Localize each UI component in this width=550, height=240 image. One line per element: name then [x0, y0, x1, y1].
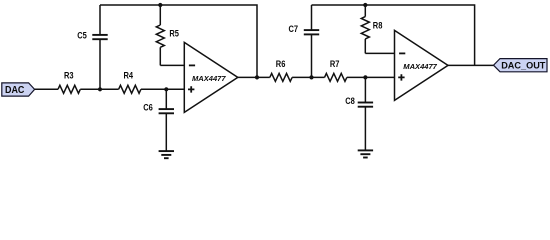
wire R4 to node B to op-amp + input	[141, 88, 184, 90]
capacitor C8	[345, 77, 373, 150]
svg-text:R7: R7	[330, 59, 340, 69]
wire R8 to op-amp2 inverting input	[365, 52, 394, 54]
resistor R6	[270, 59, 292, 82]
svg-text:DAC_OUT: DAC_OUT	[501, 61, 545, 72]
node D junction	[363, 75, 367, 79]
svg-text:MAX4477: MAX4477	[192, 74, 226, 83]
svg-text:R4: R4	[124, 71, 134, 81]
resistor R5	[156, 5, 179, 65]
svg-text:R6: R6	[276, 59, 286, 69]
junction top wire / R5	[158, 3, 162, 7]
node C junction	[309, 75, 313, 79]
port tag DAC	[2, 83, 35, 96]
svg-text:C5: C5	[77, 30, 87, 40]
ground under C8	[358, 150, 373, 157]
wire R6 to node C to R7	[292, 76, 324, 78]
op-amp U2 MAX4477	[395, 30, 449, 100]
wire R7 to node D to op-amp2 + input	[347, 76, 395, 78]
junction top wire 2 / R8	[363, 3, 367, 7]
resistor R8	[361, 5, 382, 53]
capacitor C6	[143, 89, 174, 151]
wire top feedback stage 1	[100, 5, 257, 77]
svg-text:C7: C7	[289, 24, 299, 34]
wire op-amp2 output to DAC_OUT	[448, 64, 494, 66]
svg-text:R5: R5	[169, 29, 179, 39]
ground under C6	[159, 151, 174, 158]
op-amp U1 MAX4477	[184, 42, 238, 112]
svg-text:DAC: DAC	[5, 85, 24, 96]
wire R3 to node A to R4	[80, 88, 118, 90]
resistor R4	[119, 71, 141, 94]
resistor R7	[325, 59, 347, 82]
wire top feedback stage 2	[312, 5, 475, 65]
node A junction	[98, 87, 102, 91]
wire op-amp1 output to R6	[238, 76, 270, 78]
capacitor C7	[289, 5, 320, 77]
svg-text:R3: R3	[64, 71, 74, 81]
wire DAC to R3	[35, 88, 58, 90]
resistor R3	[58, 71, 80, 94]
svg-text:R8: R8	[373, 20, 383, 30]
svg-text:C8: C8	[345, 96, 355, 106]
svg-text:MAX4477: MAX4477	[403, 62, 437, 71]
node B junction	[164, 87, 168, 91]
capacitor C5	[77, 5, 108, 89]
svg-text:C6: C6	[143, 103, 153, 113]
wire R5 to op-amp inverting input	[160, 64, 184, 66]
junction stage1 output / feedback	[255, 75, 259, 79]
port tag DAC_OUT	[494, 59, 548, 72]
